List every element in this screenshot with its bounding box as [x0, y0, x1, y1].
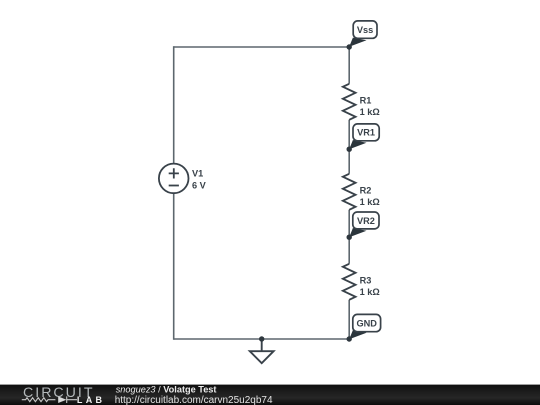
resistor R1 [343, 84, 356, 120]
wire: bottom horizontal (node GND) [174, 338, 350, 340]
svg-text:1 kΩ: 1 kΩ [360, 107, 380, 117]
flag VR2: box [353, 212, 379, 229]
node Vss junction dot [347, 44, 352, 49]
node VR1 junction dot [347, 147, 352, 152]
wire: right vertical segment Vss to R1 [348, 47, 350, 84]
node VR2 junction dot [347, 235, 352, 240]
flag Vss: tail [349, 38, 366, 47]
voltage source V1 [159, 164, 189, 194]
svg-text:V1: V1 [192, 169, 203, 179]
flag GND: box [353, 314, 381, 331]
wire: left vertical lower [173, 193, 175, 340]
ground symbol [250, 339, 274, 363]
resistor R3 [343, 264, 356, 300]
svg-text:VR1: VR1 [357, 128, 375, 138]
footer bar [0, 385, 540, 405]
wire: right vertical segment R2 to R3 (node VR2) [348, 210, 350, 264]
svg-text:6 V: 6 V [192, 180, 207, 190]
svg-text:LAB: LAB [77, 395, 105, 405]
wire: left vertical upper [173, 46, 175, 164]
wire: top horizontal (node Vss) [174, 46, 350, 48]
svg-text:R3: R3 [360, 275, 372, 285]
svg-text:snoguez3 / Volatge Test: snoguez3 / Volatge Test [116, 385, 217, 395]
logo resistor-diode icon [22, 398, 56, 402]
node GND junction dot (bottom right corner) [347, 336, 352, 341]
svg-text:Vss: Vss [357, 25, 373, 35]
svg-text:1 kΩ: 1 kΩ [360, 287, 380, 297]
svg-text:http://circuitlab.com/carvn25u: http://circuitlab.com/carvn25u2qb74 [115, 395, 273, 405]
svg-text:GND: GND [356, 318, 377, 328]
flag VR2: tail [349, 228, 366, 237]
wire: right vertical segment R3 to bottom [348, 300, 350, 339]
flag VR1: box [353, 124, 379, 141]
resistor R2 [343, 174, 356, 210]
svg-text:R1: R1 [360, 95, 372, 105]
wire: right vertical segment R1 to R2 (node VR1) [348, 120, 350, 174]
svg-text:1 kΩ: 1 kΩ [360, 197, 380, 207]
flag Vss: box [353, 21, 377, 38]
logo diode [58, 396, 66, 403]
svg-text:R2: R2 [360, 185, 372, 195]
flag GND: tail [349, 330, 366, 339]
ground junction dot [259, 336, 264, 341]
svg-text:VR2: VR2 [357, 216, 375, 226]
flag VR1: tail [349, 140, 366, 149]
